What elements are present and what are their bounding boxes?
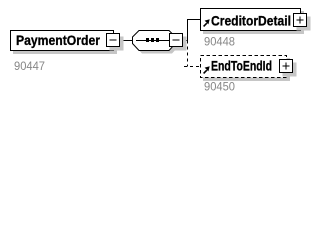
svg-text:EndToEndId: EndToEndId [211, 58, 272, 74]
svg-text:90447: 90447 [14, 59, 45, 73]
svg-text:90448: 90448 [204, 34, 235, 48]
svg-text:CreditorDetail: CreditorDetail [211, 13, 291, 29]
svg-text:PaymentOrder: PaymentOrder [16, 32, 100, 48]
svg-text:90450: 90450 [204, 80, 235, 94]
